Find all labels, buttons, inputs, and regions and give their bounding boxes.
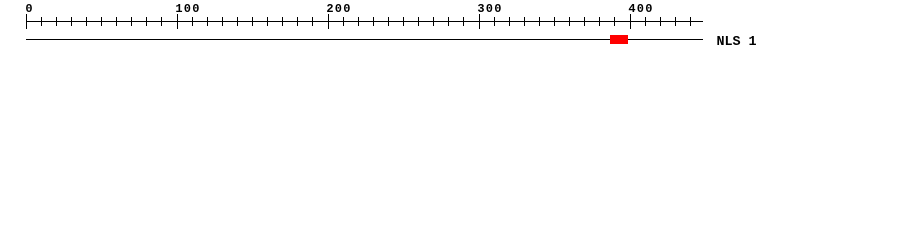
svg-text:300: 300 xyxy=(477,2,501,16)
minor tick 340 xyxy=(539,17,540,26)
minor tick 280 xyxy=(448,17,449,26)
minor tick 80 xyxy=(146,17,147,26)
minor tick 30 xyxy=(71,17,72,26)
minor tick 60 xyxy=(116,17,117,26)
wire feature line xyxy=(26,39,703,40)
minor tick 250 xyxy=(403,17,404,26)
major tick 400 xyxy=(630,14,631,29)
minor tick 120 xyxy=(207,17,208,26)
svg-text:400: 400 xyxy=(628,2,652,16)
minor tick 150 xyxy=(252,17,253,26)
major tick 0 xyxy=(26,14,27,29)
svg-text:100: 100 xyxy=(175,2,199,16)
minor tick 10 xyxy=(41,17,42,26)
minor tick 110 xyxy=(192,17,193,26)
minor tick 370 xyxy=(584,17,585,26)
major tick 100 xyxy=(177,14,178,29)
minor tick 240 xyxy=(388,17,389,26)
minor tick 350 xyxy=(554,17,555,26)
minor tick 430 xyxy=(675,17,676,26)
minor tick 390 xyxy=(614,17,615,26)
minor tick 380 xyxy=(599,17,600,26)
minor tick 140 xyxy=(237,17,238,26)
minor tick 230 xyxy=(373,17,374,26)
svg-text:NLS 1: NLS 1 xyxy=(717,35,757,50)
minor tick 310 xyxy=(494,17,495,26)
minor tick 40 xyxy=(86,17,87,26)
minor tick 130 xyxy=(222,17,223,26)
minor tick 290 xyxy=(463,17,464,26)
feature box NLS 1 (aa 387-398) xyxy=(610,35,628,44)
minor tick 210 xyxy=(343,17,344,26)
minor tick 440 xyxy=(690,17,691,26)
minor tick 320 xyxy=(509,17,510,26)
minor tick 420 xyxy=(660,17,661,26)
minor tick 190 xyxy=(312,17,313,26)
minor tick 330 xyxy=(524,17,525,26)
wire ruler baseline 0-448 xyxy=(26,21,703,22)
minor tick 170 xyxy=(282,17,283,26)
minor tick 270 xyxy=(433,17,434,26)
major tick 300 xyxy=(479,14,480,29)
svg-text:200: 200 xyxy=(326,2,350,16)
minor tick 70 xyxy=(131,17,132,26)
minor tick 220 xyxy=(358,17,359,26)
minor tick 160 xyxy=(267,17,268,26)
minor tick 20 xyxy=(56,17,57,26)
minor tick 410 xyxy=(645,17,646,26)
minor tick 260 xyxy=(418,17,419,26)
minor tick 180 xyxy=(297,17,298,26)
minor tick 90 xyxy=(161,17,162,26)
major tick 200 xyxy=(328,14,329,29)
minor tick 50 xyxy=(101,17,102,26)
svg-text:0: 0 xyxy=(25,2,32,16)
minor tick 360 xyxy=(569,17,570,26)
